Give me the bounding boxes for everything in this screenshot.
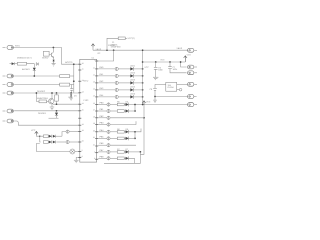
- svg-text:27: 27: [93, 109, 95, 112]
- bead FB6: [115, 88, 118, 91]
- bead FB4: [115, 74, 118, 77]
- wire: [118, 82, 130, 84]
- wire: [47, 141, 50, 143]
- wire: [98, 82, 115, 84]
- wire to IC: [69, 141, 80, 143]
- ground: [154, 97, 156, 100]
- wire return: [104, 162, 134, 164]
- svg-text:LED3: LED3: [130, 79, 136, 82]
- svg-text:19: 19: [82, 129, 84, 132]
- svg-text:MSMF050: MSMF050: [111, 45, 121, 48]
- svg-text:VCC: VCC: [144, 66, 149, 69]
- bead FB13: [107, 137, 110, 141]
- resistor R16: [117, 103, 124, 106]
- diode D15: [124, 156, 129, 160]
- node bus/main net: [142, 49, 144, 51]
- resistor R2: [43, 51, 49, 56]
- svg-text:LED2: LED2: [130, 72, 136, 75]
- bead FB9: [107, 109, 110, 113]
- wire down to resonator row: [36, 143, 39, 151]
- diode D1: [10, 62, 15, 65]
- wire: [110, 157, 117, 159]
- node D2/P2: [33, 75, 35, 77]
- svg-text:26: 26: [93, 102, 95, 105]
- node R4: [56, 103, 58, 105]
- diode D9: [130, 95, 142, 99]
- transistor Q2: [49, 92, 54, 104]
- wire: [118, 89, 130, 91]
- capacitor C2: [154, 61, 158, 77]
- resistor R5a: [43, 135, 48, 138]
- connector P2: [3, 74, 14, 78]
- wire VCC net: [143, 61, 186, 63]
- wire pin row: [98, 124, 107, 126]
- power VCC arrow: [35, 131, 40, 136]
- capacitor C3: [168, 61, 186, 73]
- wire: [110, 131, 117, 133]
- svg-text:13: 13: [82, 90, 84, 93]
- resistor R19: [117, 137, 124, 140]
- diode D10: [124, 103, 129, 107]
- ground: [50, 104, 54, 110]
- wire: [98, 75, 115, 77]
- svg-text:8: 8: [82, 155, 83, 158]
- connector J6: [188, 103, 198, 107]
- svg-text:VCC: VCC: [146, 101, 151, 104]
- connector J4: [188, 82, 198, 86]
- resistor R21: [117, 157, 124, 160]
- wire: [118, 75, 130, 77]
- IC right pin numbers: [93, 59, 95, 160]
- node: [142, 68, 144, 70]
- svg-text:LED1: LED1: [130, 65, 136, 68]
- svg-text:15: 15: [82, 108, 84, 111]
- node bus/vcc net: [142, 61, 144, 63]
- wire pin row: [98, 144, 107, 146]
- diode D3: [53, 60, 55, 64]
- wire P3: [14, 84, 60, 86]
- connector P6: [3, 119, 14, 123]
- svg-text:VCC(2): VCC(2): [128, 37, 135, 40]
- bead FB11: [107, 123, 110, 127]
- wire bus: [143, 50, 188, 104]
- wire row PB1: [62, 132, 66, 137]
- svg-text:30: 30: [93, 129, 95, 132]
- svg-text:23: 23: [93, 81, 95, 84]
- node: [180, 61, 182, 63]
- diode D14: [124, 150, 129, 154]
- svg-text:12: 12: [82, 79, 84, 82]
- svg-text:24: 24: [93, 88, 95, 91]
- svg-text:31: 31: [93, 136, 95, 139]
- resistor R9: [60, 75, 74, 78]
- diode D16: [70, 93, 72, 98]
- bead FB8: [107, 103, 110, 107]
- wire stub: [110, 144, 136, 146]
- resistor R5b: [43, 141, 48, 144]
- wire: [118, 96, 130, 98]
- wire row PB2: [56, 141, 66, 143]
- svg-text:14: 14: [82, 102, 84, 105]
- svg-text:22: 22: [93, 74, 95, 77]
- testpoint TP1: [177, 88, 182, 91]
- wire pin row: [98, 117, 107, 119]
- wire: [110, 104, 117, 106]
- diode D13: [124, 137, 129, 141]
- wire link: [134, 132, 136, 139]
- svg-text:BC847: BC847: [42, 57, 49, 60]
- svg-text:29: 29: [93, 122, 95, 125]
- node: [140, 151, 142, 153]
- connector P3: [3, 83, 14, 87]
- svg-text:BOOT0: BOOT0: [65, 61, 73, 64]
- diode D2b arrows: [36, 63, 38, 66]
- connector P5: [3, 109, 14, 113]
- ground: [74, 160, 79, 163]
- node P4/D16: [70, 92, 72, 94]
- diode D7: [130, 81, 142, 85]
- capacitor C1: [70, 85, 73, 93]
- wire: [110, 137, 117, 139]
- ground: [52, 64, 56, 66]
- wire: [40, 135, 49, 137]
- ground: [69, 98, 73, 100]
- power VCC arrow mid: [140, 101, 145, 155]
- wire to IC: [75, 151, 80, 153]
- power VCC arrow: [91, 44, 94, 50]
- resistor R17: [117, 110, 124, 113]
- wire: [56, 135, 62, 137]
- bead FB1: [66, 130, 69, 133]
- wire: [129, 104, 143, 106]
- IC right pin ticks: [95, 61, 98, 159]
- svg-text:3: 3: [94, 157, 95, 160]
- resistor R18: [117, 131, 124, 134]
- IC left pin ticks: [78, 64, 81, 157]
- bead FB10: [107, 116, 110, 120]
- svg-text:SIG1: SIG1: [15, 45, 21, 48]
- wire: [129, 137, 135, 139]
- diode D20: [53, 141, 56, 144]
- connector J3: [188, 71, 198, 75]
- connector J1: [188, 48, 198, 52]
- diode D5: [130, 67, 142, 71]
- resistor R4: [55, 92, 59, 104]
- node: [113, 49, 115, 51]
- svg-text:2: 2: [94, 150, 95, 153]
- wire pin row: [98, 110, 107, 112]
- capacitor C4: [153, 84, 187, 102]
- wire stub: [110, 121, 136, 124]
- fuse F1: [107, 37, 127, 50]
- wire: [110, 151, 117, 153]
- bead FB14: [107, 143, 110, 147]
- diode D19: [49, 141, 52, 144]
- wire: [98, 68, 115, 70]
- wire: [129, 110, 135, 112]
- wire: [118, 68, 130, 70]
- node: [154, 96, 156, 98]
- svg-text:28: 28: [93, 115, 95, 118]
- svg-text:SENSE1: SENSE1: [38, 112, 47, 115]
- wire row to IC: [53, 103, 80, 105]
- wire loop: [129, 152, 141, 163]
- wire link left: [39, 136, 42, 142]
- diode D8: [130, 88, 142, 92]
- wire link: [134, 105, 136, 112]
- svg-text:32: 32: [93, 144, 95, 147]
- wire conn R2: [181, 62, 187, 67]
- power VCC arrow right: [184, 56, 187, 62]
- resonator X1: [70, 149, 75, 154]
- wire pin row: [98, 137, 107, 139]
- wire main net: [93, 49, 188, 51]
- svg-text:VBUS: VBUS: [177, 47, 183, 50]
- IC U1: [80, 57, 97, 162]
- svg-text:25: 25: [93, 95, 95, 98]
- diode D12: [124, 130, 129, 134]
- svg-text:VBUS: VBUS: [96, 48, 102, 51]
- wire: [129, 129, 141, 132]
- node: [39, 136, 40, 137]
- bead FB2: [66, 140, 69, 143]
- svg-text:11: 11: [82, 68, 84, 71]
- wire P6 to IC: [14, 121, 80, 125]
- wire pin row: [98, 131, 107, 133]
- wire: [98, 96, 115, 98]
- diode D2: [33, 68, 36, 76]
- diode D18: [53, 135, 56, 138]
- svg-text:LED5: LED5: [130, 93, 136, 96]
- svg-text:SENSE2: SENSE2: [37, 90, 46, 93]
- diode D11: [124, 109, 129, 113]
- diode D6: [130, 74, 142, 78]
- wire to VCC bus: [110, 117, 144, 119]
- connector J2R: [188, 65, 198, 69]
- wire crystal row: [36, 151, 70, 153]
- node: [106, 49, 108, 51]
- resistor R10: [60, 83, 74, 86]
- svg-text:PUSH: PUSH: [168, 86, 174, 89]
- resistor R20: [117, 151, 124, 154]
- svg-text:F103: F103: [84, 99, 90, 102]
- svg-text:5: 5: [82, 149, 83, 152]
- svg-text:VCC: VCC: [187, 53, 192, 56]
- svg-text:BAT54S: BAT54S: [22, 68, 30, 71]
- resistor R1: [14, 62, 26, 65]
- wire pin row: [98, 151, 107, 153]
- wire: [98, 89, 115, 91]
- svg-text:VCC: VCC: [160, 59, 165, 62]
- wire to IC: [69, 131, 80, 133]
- node bus row3: [143, 117, 145, 119]
- bead FB16: [107, 156, 110, 160]
- wire: [129, 151, 141, 153]
- svg-text:LED4: LED4: [130, 86, 136, 89]
- diode D17: [49, 135, 52, 138]
- resistor R3: [36, 92, 49, 103]
- wire P5 to IC: [14, 110, 80, 112]
- wire P1 to IC pin: [13, 48, 79, 65]
- wire: [110, 110, 117, 112]
- wire pin row: [98, 157, 107, 159]
- ground: [153, 77, 158, 80]
- wire R1 to D2: [27, 64, 35, 68]
- node: [142, 96, 144, 98]
- diode D4: [55, 110, 58, 118]
- wire pin row: [98, 104, 107, 106]
- node: [142, 75, 144, 77]
- svg-text:18: 18: [82, 123, 84, 126]
- wire stub: [49, 117, 59, 119]
- IC left pin numbers: [82, 62, 84, 158]
- svg-text:MCU: MCU: [84, 80, 89, 83]
- wire P2: [14, 75, 60, 77]
- node: [73, 80, 75, 82]
- wire gnd stub: [76, 157, 80, 160]
- bead FB3: [115, 67, 118, 70]
- svg-text:VCC: VCC: [31, 129, 36, 132]
- svg-text:1: 1: [94, 59, 95, 62]
- svg-text:21: 21: [93, 67, 95, 70]
- node: [142, 104, 144, 106]
- wire IC pin1: [97, 50, 114, 61]
- node: [142, 82, 144, 84]
- bead FB15: [107, 150, 110, 154]
- node: [142, 89, 144, 91]
- bead FB12: [107, 130, 110, 134]
- svg-text:MMBT3904: MMBT3904: [37, 97, 49, 100]
- svg-text:MMBZ15VDLT1: MMBZ15VDLT1: [17, 57, 33, 60]
- connector J5: [188, 95, 197, 99]
- switch SW1: [155, 82, 188, 91]
- bead FB5: [115, 81, 118, 84]
- connector P1: [3, 46, 14, 50]
- connector P4: [3, 91, 14, 95]
- bead FB7: [115, 95, 118, 98]
- svg-text:10: 10: [82, 62, 84, 65]
- wire P4 to IC: [13, 92, 79, 94]
- node junction on P1 net: [53, 47, 55, 49]
- svg-text:20: 20: [82, 140, 84, 143]
- wire vertical net left of IC: [73, 64, 75, 93]
- transistor Q1: [49, 48, 54, 60]
- node: [73, 63, 75, 65]
